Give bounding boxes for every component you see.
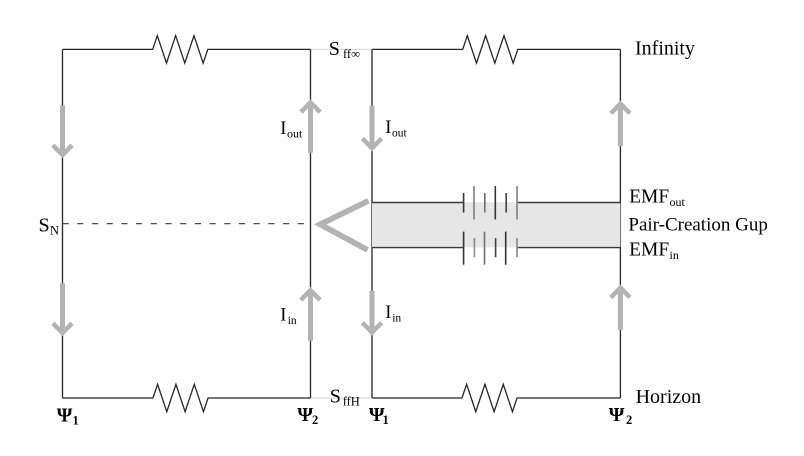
- svg-text:ffH: ffH: [343, 395, 360, 409]
- svg-text:Horizon: Horizon: [636, 386, 702, 408]
- svg-text:out: out: [392, 128, 408, 140]
- svg-text:I: I: [280, 119, 286, 139]
- svg-text:2: 2: [312, 413, 318, 427]
- svg-text:S: S: [329, 38, 340, 60]
- svg-text:ff∞: ff∞: [343, 47, 360, 61]
- svg-text:Ψ: Ψ: [609, 404, 625, 426]
- svg-text:Infinity: Infinity: [635, 38, 695, 60]
- svg-text:S: S: [39, 214, 50, 236]
- svg-text:Pair-Creation Gup: Pair-Creation Gup: [628, 214, 767, 235]
- svg-text:in: in: [288, 315, 297, 327]
- svg-text:I: I: [280, 306, 286, 326]
- svg-text:out: out: [670, 195, 686, 209]
- svg-text:out: out: [287, 127, 303, 141]
- svg-text:I: I: [385, 303, 391, 323]
- svg-text:I: I: [385, 118, 391, 138]
- svg-text:EMF: EMF: [629, 186, 669, 207]
- svg-text:S: S: [330, 385, 341, 407]
- svg-text:Ψ: Ψ: [57, 404, 73, 426]
- svg-text:EMF: EMF: [629, 239, 669, 260]
- svg-text:in: in: [392, 313, 401, 325]
- svg-text:1: 1: [73, 414, 79, 428]
- svg-text:2: 2: [626, 413, 632, 427]
- svg-text:N: N: [50, 224, 59, 238]
- svg-text:in: in: [670, 248, 679, 262]
- svg-text:1: 1: [383, 413, 389, 427]
- svg-text:Ψ: Ψ: [297, 404, 313, 426]
